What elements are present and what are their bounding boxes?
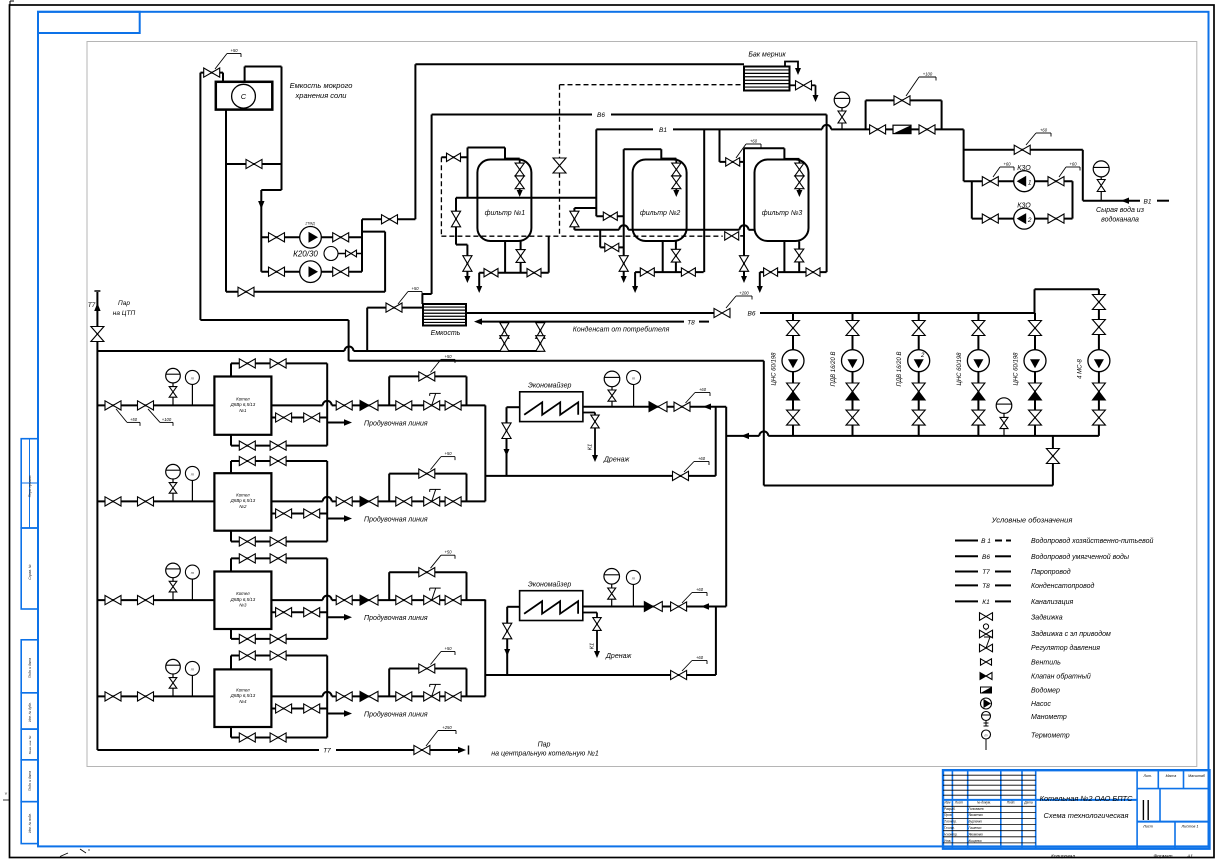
legend line Т7 <box>955 571 978 573</box>
valve boiler №4 reg inlet <box>396 692 412 701</box>
valve raw line left <box>870 125 886 134</box>
valve f1 bottom right <box>527 269 541 277</box>
valve boiler №3 reg outlet <box>445 596 461 605</box>
legend symbol manometr <box>982 712 991 721</box>
valve bottom return <box>238 287 254 296</box>
svg-text:Т8: Т8 <box>982 583 990 590</box>
valve column 5 bottom <box>1029 410 1042 425</box>
valve f2 bottom right <box>681 268 695 276</box>
valve pump2 suction <box>269 267 285 276</box>
svg-text:Якименко: Якименко <box>968 813 984 817</box>
svg-text:Лист: Лист <box>954 801 964 805</box>
wire boiler №1 side vertical <box>326 363 328 445</box>
valve discharge top <box>382 215 398 224</box>
arrow f1 bottom left <box>476 286 482 293</box>
svg-text:+50: +50 <box>444 354 452 359</box>
wire f3 top feed <box>744 147 784 149</box>
wire f1 bottom right riser <box>548 236 550 273</box>
valve column 2 bottom <box>846 410 859 425</box>
wire K3O bypass top <box>964 149 1083 151</box>
svg-text:ПДВ 16/20 В: ПДВ 16/20 В <box>897 352 903 387</box>
arrow f1 inner down <box>517 190 523 197</box>
svg-text:Дата: Дата <box>1023 801 1033 805</box>
svg-text:№ докум.: № докум. <box>977 801 991 805</box>
salt tank Emkost mokrogo khraneniya soli <box>216 82 272 110</box>
valve boiler №3 blowdown 1 <box>276 608 292 617</box>
wire boilers 3-4 connecting vertical <box>484 600 486 697</box>
manometer header <box>996 398 1012 414</box>
wire boiler №1 regulator bypass <box>388 376 390 405</box>
valve eco1 outlet <box>674 402 690 411</box>
valve boiler №2 bottom 1 <box>239 537 255 546</box>
svg-text:В6: В6 <box>748 311 756 318</box>
svg-text:Дренаж: Дренаж <box>605 653 632 660</box>
wire emkost drain riser <box>366 308 368 351</box>
wire boiler №1 feed row left <box>97 404 214 406</box>
wire bypass top <box>866 99 942 101</box>
svg-text:Дренаж: Дренаж <box>603 457 630 464</box>
regulator boiler №4 <box>424 692 440 701</box>
wire blowdown outlet №4 <box>327 713 348 715</box>
svg-text:Котельная №2 ОАО БПТС: Котельная №2 ОАО БПТС <box>1040 794 1133 803</box>
wire f1 inner top <box>505 158 520 160</box>
valve boiler №2 steam <box>336 497 352 506</box>
arrow T7 exit <box>458 747 466 753</box>
wire boiler №1 bottom row <box>230 435 232 446</box>
svg-text:Насос: Насос <box>1031 701 1051 708</box>
flag +50 bypass №2 <box>431 457 442 470</box>
arrow T7 up <box>94 303 100 311</box>
arrow eco2 outlet left <box>701 603 709 609</box>
svg-text:ЦНС 60/198: ЦНС 60/198 <box>772 352 778 386</box>
wire eco2 outlet row <box>583 606 726 608</box>
wire f1 top feed <box>467 148 469 198</box>
svg-text:С: С <box>241 92 247 101</box>
wire eco1 riser right <box>715 407 717 476</box>
wire boiler №2 top row <box>230 461 232 473</box>
wire B6 main line y114 <box>432 114 592 116</box>
svg-text:№1: №1 <box>239 408 247 413</box>
wire header2 drop vertical <box>763 361 765 486</box>
valve boiler №2 feed 1 <box>105 497 121 506</box>
flag +60 eco2 outlet <box>682 593 692 604</box>
valve f1 inner upper <box>515 163 524 176</box>
flag +60 eco2 lower <box>682 661 692 672</box>
thermometer boiler №1 <box>185 370 199 384</box>
wire f2 mid vertical <box>703 129 705 272</box>
valve boiler №2 blowdown 1 <box>276 509 292 518</box>
valve column 4 top <box>972 321 985 336</box>
wire f3 B1 riser <box>719 129 721 162</box>
wire f2 inner top <box>661 158 676 160</box>
valve boiler №1 blowdown 2 <box>304 413 320 422</box>
check valve column 4 <box>972 383 985 392</box>
wire blowdown outlet №1 <box>327 422 348 424</box>
valve salt tank inlet <box>204 68 220 77</box>
wire B6 soft water line y313 <box>466 312 714 314</box>
valve boiler №2 top 1 <box>239 456 255 465</box>
wire boiler №3 feed row left <box>97 599 214 601</box>
svg-text:1: 1 <box>1028 179 1032 186</box>
svg-text:Головачев: Головачев <box>969 807 984 811</box>
svg-text:+60: +60 <box>1003 162 1011 167</box>
wire left vertical from inlet valve <box>199 73 201 320</box>
wire hdr2 feed vertical from emkost line <box>200 319 348 321</box>
valve boiler №4 feed 1 <box>105 692 121 701</box>
valve bypass top <box>894 96 910 105</box>
side stamp Podp i data 1 <box>21 640 38 693</box>
pump 4 МС-8 column 6 <box>1088 350 1110 372</box>
manometer eco1 <box>604 371 620 387</box>
wire T7 main vertical <box>96 292 98 750</box>
svg-text:ПДВ 16/20 В: ПДВ 16/20 В <box>831 352 837 387</box>
wire boiler №4 feed row right <box>271 695 322 697</box>
side stamp Vzam inv No <box>21 729 38 760</box>
svg-text:+200: +200 <box>739 291 749 296</box>
check valve eco1 outlet <box>649 402 658 412</box>
wire f2 top feed <box>624 148 662 150</box>
valve eco1 lower row <box>673 471 689 480</box>
drawing area border gray <box>87 42 1197 767</box>
valve boiler №4 top 1 <box>239 651 255 660</box>
arrow f3 inner down <box>796 190 802 197</box>
wire f3 inlet valve line <box>720 161 745 163</box>
svg-text:Конденсат от потребителя: Конденсат от потребителя <box>573 326 670 334</box>
valve boiler №4 feed 2 <box>138 692 154 701</box>
wire f2 vessel bottom stubs <box>662 241 664 272</box>
wire boiler №4 side vertical <box>326 656 328 738</box>
valve boiler №2 feed 2 <box>138 497 154 506</box>
wire boiler №2 side vertical <box>326 461 328 542</box>
wire f3 vessel bottom stubs <box>783 242 785 273</box>
svg-text:Н.контр.: Н.контр. <box>944 833 958 837</box>
svg-text:А1: А1 <box>1186 854 1193 860</box>
wire right filter vertical <box>826 115 828 273</box>
valve T7 bottom <box>414 745 430 754</box>
wire long line y230 <box>574 229 619 231</box>
svg-text:Сырая вода из: Сырая вода из <box>1096 206 1145 214</box>
valve boiler №1 reg outlet <box>445 401 461 410</box>
thermometer eco2 <box>626 570 640 584</box>
valve K3O bypass <box>1014 145 1030 154</box>
svg-text:2: 2 <box>1027 217 1032 224</box>
svg-text:Экономайзер: Экономайзер <box>528 382 571 390</box>
svg-text:В6: В6 <box>982 554 990 561</box>
boiler DKVr 6.5/13 №4 <box>214 669 271 727</box>
svg-text:Емкость: Емкость <box>431 330 461 337</box>
svg-text:ДКВр 6,5/13: ДКВр 6,5/13 <box>230 597 256 602</box>
svg-text:на центральную котельную №1: на центральную котельную №1 <box>491 751 599 758</box>
valve column 3 bottom <box>912 410 925 425</box>
regulator boiler №3 <box>424 596 440 605</box>
wire eco1 inlet <box>507 406 520 408</box>
arrow f3 drain <box>741 276 747 283</box>
wire eco2 inlet <box>507 606 519 608</box>
emkost condensate tank hatched <box>423 304 466 326</box>
top-left stamp box <box>38 12 140 33</box>
motor circle small <box>324 247 338 261</box>
valve f2 inner lower <box>672 176 681 189</box>
svg-text:Взам. инв. №: Взам. инв. № <box>28 735 32 754</box>
svg-text:Т7: Т7 <box>982 569 990 576</box>
boiler DKVr 6.5/13 №1 <box>214 377 271 435</box>
valve eco1 inlet <box>502 423 511 439</box>
wire f1 long horizontal y198 <box>456 197 596 199</box>
manometer raw line <box>834 92 850 108</box>
wire boiler №3 side vertical <box>326 558 328 639</box>
legend symbol regulyator davleniya <box>980 644 993 652</box>
svg-text:Водомер: Водомер <box>1031 687 1060 695</box>
wire tank bottom vertical <box>225 110 227 292</box>
wire boiler №4 bottom row <box>230 727 232 738</box>
valve boiler №3 feed 1 <box>105 596 121 605</box>
wire eco1 K1 drain <box>583 412 595 414</box>
wire f3 drain vertical <box>743 148 745 276</box>
pump ПДВ 16/20 В column 3 <box>908 350 930 372</box>
valve boiler №1 bottom 2 <box>270 441 286 450</box>
svg-text:ЦНС 60/198: ЦНС 60/198 <box>1014 352 1020 386</box>
check valve boiler №3 <box>360 595 369 605</box>
valve small motor line <box>338 253 362 255</box>
pump K20/30 no2 <box>300 261 322 283</box>
svg-text:Лит.: Лит. <box>1142 774 1151 778</box>
svg-text:+100: +100 <box>923 72 933 77</box>
svg-text:+50: +50 <box>444 646 452 651</box>
svg-text:Подп. и дата: Подп. и дата <box>28 658 32 678</box>
svg-text:ДКВр 6,5/13: ДКВр 6,5/13 <box>230 693 256 698</box>
wire boiler №3 blowdown <box>271 611 327 613</box>
valve boiler №3 top 2 <box>270 554 286 563</box>
valve pump1 discharge <box>333 233 349 242</box>
valve boiler №2 bottom 2 <box>270 537 286 546</box>
pump ЦНС 60/198 column 5 <box>1024 350 1046 372</box>
pump K3O no2 <box>1014 208 1035 229</box>
svg-text:Паропровод: Паропровод <box>1031 568 1071 576</box>
flag +50 bypass №4 <box>431 652 442 665</box>
valve f1 bottom left <box>484 269 498 277</box>
svg-text:2ТМД: 2ТМД <box>304 222 315 226</box>
legend symbol vodomer <box>981 687 992 693</box>
pump ЦНС 60/198 column 1 <box>782 350 804 372</box>
valve link drop <box>1046 449 1059 464</box>
svg-text:+60: +60 <box>698 456 706 461</box>
valve column 6 bottom <box>1092 410 1105 425</box>
wire K3O row2 <box>971 181 973 218</box>
wire eco2 K1 drain <box>583 612 597 614</box>
svg-text:Копировал: Копировал <box>1051 854 1075 860</box>
arrow f2 left drain <box>621 276 627 283</box>
flag +250 T7 <box>426 731 438 747</box>
valve boiler №1 top 2 <box>270 359 286 368</box>
wire T7 bottom line <box>97 749 319 751</box>
filter vessel фильтр №3 <box>755 160 809 242</box>
wire dashed f1 inlet vertical <box>440 157 442 236</box>
valve emkost feed <box>386 303 402 312</box>
valve column 1 top <box>787 321 800 336</box>
svg-text:Задвижка с эл приводом: Задвижка с эл приводом <box>1031 630 1111 638</box>
legend symbol zadvizhka <box>980 613 993 621</box>
svg-text:Формат: Формат <box>1153 854 1172 860</box>
svg-text:4 МС-8: 4 МС-8 <box>1077 359 1083 379</box>
svg-text:Т7: Т7 <box>323 748 331 755</box>
valve boiler №4 steam <box>336 692 352 701</box>
legend line В6 <box>955 555 978 557</box>
wire boiler №4 feed row left <box>97 695 214 697</box>
wire boiler №3 bottom row <box>230 629 232 639</box>
svg-text:Утв.: Утв. <box>944 839 951 843</box>
flag +100 bypass <box>906 77 919 96</box>
wire tank side outlet <box>790 84 797 86</box>
valve eco1 K1 <box>591 415 599 428</box>
valve boiler №3 top 1 <box>239 554 255 563</box>
wire connector to lower main <box>362 231 385 233</box>
legend symbol klapan obratnyi <box>980 673 986 680</box>
svg-text:Котел: Котел <box>236 687 250 692</box>
valve boiler №4 reg outlet <box>445 692 461 701</box>
svg-text:+100: +100 <box>162 417 172 422</box>
wire pump row 1 <box>261 236 362 238</box>
check valve column 5 <box>1029 383 1042 392</box>
valve boiler №4 bypass top <box>419 664 435 673</box>
svg-text:Т8: Т8 <box>687 320 695 327</box>
svg-text:№4: №4 <box>239 699 247 704</box>
valve boiler №4 bottom 2 <box>270 733 286 742</box>
valve f2 inlet <box>603 212 617 220</box>
wire pump column 6 <box>1098 289 1100 436</box>
wire stub to tank top <box>222 73 224 82</box>
svg-text:Манометр: Манометр <box>1031 714 1067 721</box>
manometer raw inlet <box>1093 161 1109 177</box>
check valve boiler №4 <box>360 691 369 701</box>
manometer boiler №4 <box>166 659 181 674</box>
economizer box <box>520 392 583 422</box>
arrow down pump suction <box>258 201 264 209</box>
wire f3 bottom row <box>760 271 827 273</box>
svg-text:Емкость мокрого: Емкость мокрого <box>290 81 353 90</box>
flag +50 emkost <box>398 292 408 305</box>
wire f1 left drain <box>456 244 467 246</box>
svg-text:Y: Y <box>5 791 8 796</box>
valve K3O row1 left <box>982 177 998 186</box>
svg-text:Конденсатопровод: Конденсатопровод <box>1031 582 1095 590</box>
svg-text:+250: +250 <box>442 725 452 730</box>
valve column 5 top <box>1029 321 1042 336</box>
boiler DKVr 6.5/13 №2 <box>214 473 271 531</box>
svg-text:Кищенко: Кищенко <box>969 839 982 843</box>
arrow eco1 inlet down <box>504 449 510 456</box>
wire condensate drop 2 <box>539 322 541 351</box>
valve boiler №1 bottom 1 <box>239 441 255 450</box>
wire lower link y485 <box>764 485 1053 487</box>
valve column 6 top a <box>1092 295 1105 310</box>
check valve column 2 <box>846 383 859 392</box>
flag +60 eco1 outlet <box>686 393 696 404</box>
manometer boiler №2 <box>166 464 181 479</box>
valve f3 inner upper <box>795 163 804 176</box>
wire eco2 lower row <box>485 674 716 676</box>
svg-text:на ЦТП: на ЦТП <box>113 310 136 317</box>
wire f1 bottom row <box>479 272 549 274</box>
wire f2 left vertical <box>623 149 625 276</box>
legend symbol nasos <box>981 698 992 709</box>
svg-text:+50: +50 <box>411 286 419 291</box>
wire boiler №1 feed row right <box>271 404 322 406</box>
check valve eco2 outlet <box>644 602 653 612</box>
valve boiler №1 top 1 <box>239 359 255 368</box>
svg-text:хранения соли: хранения соли <box>295 91 348 100</box>
flag +60 row1 right <box>1059 167 1066 177</box>
valve column 2 top <box>846 321 859 336</box>
wire f3 inner top <box>784 158 799 160</box>
wire header2 y361 <box>349 360 764 362</box>
svg-text:т: т <box>985 733 988 737</box>
svg-text:Пров.: Пров. <box>944 813 953 817</box>
arrow f2 inner down <box>673 190 679 197</box>
svg-text:ДКВр 6,5/13: ДКВр 6,5/13 <box>230 498 256 503</box>
title block frame <box>943 770 1210 849</box>
valve boiler №4 top 2 <box>270 651 286 660</box>
svg-text:К1: К1 <box>590 643 596 649</box>
legend line К1 <box>955 600 978 602</box>
title lit marks <box>1142 800 1144 820</box>
valve boiler №4 blowdown 1 <box>276 704 292 713</box>
svg-text:Канализация: Канализация <box>1031 599 1073 606</box>
side stamp Sprav No <box>21 528 38 609</box>
valve boiler №3 bypass top <box>419 568 435 577</box>
bak mernik measuring tank <box>744 67 790 91</box>
flag +50 boiler1 feed <box>116 409 127 423</box>
svg-text:К20/30: К20/30 <box>293 250 318 259</box>
wire f2 bottom row <box>635 271 704 273</box>
wire pump column 5 <box>1034 313 1036 436</box>
svg-text:Гашенко: Гашенко <box>969 826 982 830</box>
wire boiler №2 feed row left <box>97 500 214 502</box>
svg-text:В1: В1 <box>1144 198 1152 205</box>
svg-text:Схема технологическая: Схема технологическая <box>1044 811 1129 820</box>
svg-text:Т7: Т7 <box>88 302 96 309</box>
valve on dashed bottom <box>725 232 739 240</box>
valve boiler №4 bottom 1 <box>239 733 255 742</box>
svg-text:Термометр: Термометр <box>1031 733 1070 740</box>
legend symbol termometr <box>982 730 991 739</box>
svg-text:+50: +50 <box>230 48 238 53</box>
svg-text:Продувочная линия: Продувочная линия <box>364 614 428 622</box>
wire eco1 lower row <box>485 475 715 477</box>
wire f2 left inlet line <box>599 230 601 248</box>
valve f2 bottom left <box>640 268 654 276</box>
svg-text:В6: В6 <box>597 112 605 119</box>
wire boiler №2 regulator bypass <box>388 474 390 502</box>
side stamp Inv No dubl <box>21 693 38 729</box>
valve boiler №2 blowdown 2 <box>304 509 320 518</box>
wire discharge top line <box>362 218 415 220</box>
valve f1 right loop <box>570 211 579 227</box>
wire boiler №2 bottom row <box>230 531 232 542</box>
svg-text:водоканала: водоканала <box>1101 216 1139 224</box>
valve boiler №3 bottom 1 <box>239 634 255 643</box>
wire pump column 3 <box>918 313 920 436</box>
filter vessel фильтр №1 <box>477 160 531 242</box>
arrow eco2 K1 drain <box>594 651 600 658</box>
flag +100 boiler1 feed <box>148 409 160 423</box>
valve crossover <box>246 159 262 168</box>
check valve column 3 <box>912 383 925 392</box>
filter vessel фильтр №2 <box>633 160 687 242</box>
wire steam header y351 <box>97 350 344 352</box>
wire B1 main line y129 <box>596 128 653 130</box>
wire f2 inlet valve line <box>596 215 623 217</box>
wire f1 right side loop <box>574 207 596 209</box>
